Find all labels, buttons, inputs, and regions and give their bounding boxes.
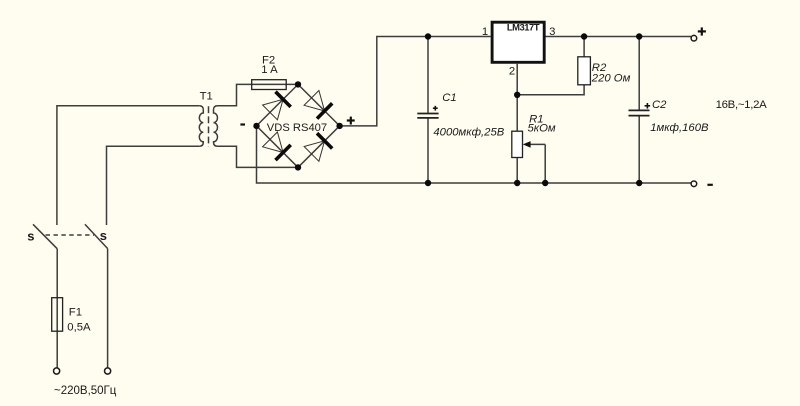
svg-text:T1: T1: [200, 91, 213, 103]
svg-text:LM317T: LM317T: [507, 21, 540, 32]
svg-text:3: 3: [549, 26, 555, 38]
svg-text:~220В,50Гц: ~220В,50Гц: [54, 385, 117, 397]
svg-text:s: s: [27, 228, 34, 243]
svg-text:C1: C1: [442, 92, 456, 104]
svg-text:VDS RS407: VDS RS407: [267, 122, 327, 134]
svg-text:C2: C2: [652, 99, 667, 111]
svg-text:0,5А: 0,5А: [67, 321, 91, 333]
svg-text:4000мкф,25В: 4000мкф,25В: [433, 127, 504, 139]
svg-text:220 Ом: 220 Ом: [591, 72, 631, 84]
svg-text:1 A: 1 A: [261, 64, 278, 76]
svg-text:1мкф,160В: 1мкф,160В: [650, 122, 709, 134]
svg-text:16В,~1,2А: 16В,~1,2А: [716, 99, 768, 111]
svg-text:F1: F1: [69, 306, 82, 318]
svg-text:5кОм: 5кОм: [528, 123, 556, 135]
svg-text:s: s: [100, 228, 107, 243]
svg-text:1: 1: [482, 26, 488, 38]
svg-text:2: 2: [509, 65, 515, 77]
